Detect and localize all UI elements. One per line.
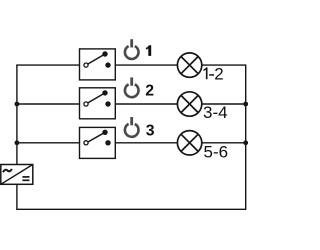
wire left bus psu-bottom segment — [16, 184, 18, 209]
svg-text:2: 2 — [145, 82, 154, 99]
label 1-2 (digit 1 path + text) — [203, 67, 207, 79]
switch S3 — [80, 127, 116, 158]
svg-text:3-4: 3-4 — [203, 103, 228, 122]
lamp E2 — [177, 92, 201, 116]
wire row 2 left — [17, 103, 86, 105]
wire left bus vertical — [16, 65, 18, 164]
power icon 1 — [125, 39, 139, 59]
wire row 3 left — [17, 142, 86, 144]
wire row 2 switch to lamp — [108, 103, 177, 105]
wire row 3 lamp to right bus — [202, 142, 247, 144]
junction right bus row 2 — [243, 102, 248, 107]
wire bottom horizontal — [16, 208, 246, 210]
junction left bus row 3 — [15, 140, 20, 145]
wire row 1 switch to lamp — [108, 64, 177, 66]
power icon 2 — [125, 77, 139, 97]
wire row 2 lamp to right bus — [202, 103, 247, 105]
svg-text:3: 3 — [146, 123, 155, 140]
junction left bus row 2 — [15, 102, 20, 107]
lamp E3 — [177, 131, 201, 155]
svg-text:5-6: 5-6 — [204, 143, 229, 162]
wire row 1 lamp to right bus — [202, 64, 247, 66]
power icon 3 — [125, 117, 139, 137]
switch S1 — [80, 49, 116, 80]
svg-text:2: 2 — [214, 64, 223, 83]
lamp E1 — [177, 53, 201, 77]
wire right bus vertical — [245, 65, 247, 210]
power supply U1 — [1, 165, 33, 185]
wire row 3 switch to lamp — [108, 142, 177, 144]
switch S2 — [80, 88, 116, 119]
junction right bus row 3 — [243, 140, 248, 145]
label 1 (digit path) — [146, 45, 151, 56]
wire row 1 left — [16, 64, 86, 66]
